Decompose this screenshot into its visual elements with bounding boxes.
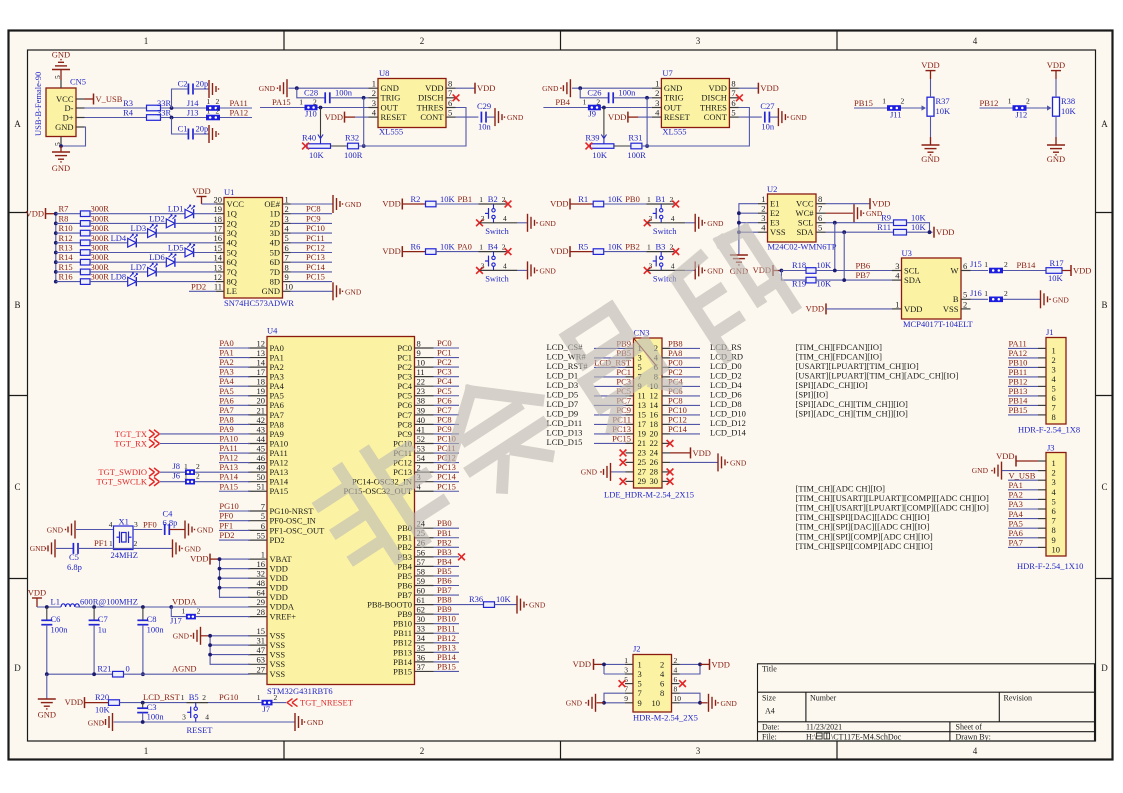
svg-text:5: 5: [1052, 496, 1056, 506]
svg-text:J6: J6: [172, 470, 180, 480]
svg-text:1: 1: [1052, 345, 1056, 355]
junction: [169, 605, 173, 609]
wire cap to TRIG: [330, 97, 369, 99]
wire AGND to VSS27: [124, 673, 251, 675]
svg-text:PC8: PC8: [306, 204, 321, 214]
junction: [698, 701, 702, 705]
svg-text:100n: 100n: [147, 625, 165, 635]
junction: [295, 86, 299, 90]
no connect X pin2: [505, 201, 512, 208]
svg-text:11: 11: [638, 391, 646, 401]
no connect X pin3: [644, 267, 651, 274]
power port VDD right of R17: [1062, 270, 1071, 272]
wire J14 to PA11: [220, 107, 252, 109]
no connect X pin3: [476, 219, 483, 226]
svg-text:2: 2: [196, 471, 200, 480]
svg-text:2: 2: [1026, 97, 1030, 106]
svg-text:3Q: 3Q: [227, 228, 237, 238]
ground GND bottom left: [46, 674, 48, 699]
svg-text:VDD: VDD: [425, 83, 443, 93]
wire LD3 to U1: [156, 232, 216, 234]
svg-text:1: 1: [479, 195, 483, 204]
svg-text:20p: 20p: [196, 79, 209, 89]
svg-text:J7: J7: [263, 704, 271, 714]
svg-text:J10: J10: [305, 109, 317, 119]
svg-text:3: 3: [696, 36, 701, 46]
svg-text:DISCH: DISCH: [701, 93, 727, 103]
svg-text:56: 56: [417, 547, 426, 557]
svg-text:VDD: VDD: [270, 583, 288, 593]
svg-text:2: 2: [596, 98, 600, 107]
svg-text:R2: R2: [411, 194, 421, 204]
svg-text:MCP4017T-104ELT: MCP4017T-104ELT: [903, 319, 974, 329]
svg-text:PB14: PB14: [1017, 260, 1037, 270]
net label PF0: [219, 520, 250, 522]
svg-text:13: 13: [214, 262, 223, 272]
svg-text:SN74HC573ADWR: SN74HC573ADWR: [224, 298, 294, 308]
junction: [737, 221, 741, 225]
svg-text:PA0: PA0: [458, 242, 472, 252]
svg-text:8: 8: [417, 338, 421, 348]
net label PA15: [219, 490, 250, 492]
svg-text:PC2: PC2: [397, 362, 412, 372]
wire R15 to LD7: [90, 271, 148, 273]
net label PB10: [1008, 366, 1038, 368]
svg-text:PF0: PF0: [143, 520, 157, 530]
resistor R32 100R: [331, 145, 348, 147]
svg-text:PA5: PA5: [219, 386, 233, 396]
svg-text:23: 23: [417, 386, 426, 396]
svg-text:PC15: PC15: [437, 481, 456, 491]
svg-text:GND: GND: [307, 718, 324, 727]
ground at switch: [528, 214, 538, 232]
wire bus to pin: [739, 222, 758, 224]
no connect X pin2: [672, 201, 679, 208]
svg-text:24MHZ: 24MHZ: [111, 550, 138, 560]
svg-text:PC1: PC1: [397, 352, 412, 362]
svg-text:[TIM_CH][FDCAN][IO]: [TIM_CH][FDCAN][IO]: [796, 351, 883, 361]
ground pin27: [626, 471, 634, 473]
svg-text:J15: J15: [970, 259, 982, 269]
svg-text:30: 30: [650, 476, 659, 486]
svg-text:SDA: SDA: [796, 227, 814, 237]
svg-text:VDD: VDD: [270, 592, 288, 602]
svg-text:21: 21: [638, 438, 647, 448]
wire R3 to J14: [161, 107, 207, 109]
svg-text:RESET: RESET: [187, 725, 214, 735]
svg-text:PC13: PC13: [437, 462, 456, 472]
junction: [54, 280, 58, 284]
svg-text:51: 51: [257, 482, 266, 492]
wire VDDA rail: [76, 606, 251, 608]
capacitor C27 10n: [739, 116, 762, 118]
svg-text:File:: File:: [762, 732, 777, 741]
net label PC9 pin15: [594, 414, 633, 416]
wire PA15 row: [260, 107, 305, 109]
svg-text:DISCH: DISCH: [418, 93, 444, 103]
svg-text:VDD: VDD: [382, 199, 400, 209]
net label PC10: [291, 232, 333, 234]
svg-text:PC13: PC13: [306, 252, 325, 262]
net label PC13: [291, 261, 333, 263]
net label PF0 and capacitor C4 6.8p: [133, 529, 162, 531]
svg-text:GND: GND: [566, 698, 583, 707]
svg-text:[TIM_CH][SPI][COMP][ADC CH][IO: [TIM_CH][SPI][COMP][ADC CH][IO]: [796, 531, 933, 541]
svg-text:GND: GND: [47, 526, 64, 535]
net label PB12: [434, 642, 460, 644]
svg-text:VDD: VDD: [192, 186, 210, 196]
svg-text:PB0: PB0: [437, 518, 452, 528]
svg-text:2: 2: [669, 243, 673, 252]
net label PC11 pin17: [594, 423, 633, 425]
svg-text:18: 18: [650, 419, 659, 429]
wire PB0 to switch: [604, 203, 647, 205]
svg-text:PC2: PC2: [668, 367, 683, 377]
svg-text:12: 12: [650, 391, 659, 401]
net label PC11: [434, 452, 460, 454]
svg-text:8Q: 8Q: [227, 277, 237, 287]
ground at J2 left: [604, 693, 625, 703]
svg-text:LCD_D9: LCD_D9: [547, 408, 579, 418]
svg-text:4: 4: [503, 214, 507, 223]
svg-text:32: 32: [257, 569, 266, 579]
svg-text:16: 16: [650, 410, 659, 420]
svg-text:A4: A4: [765, 707, 775, 716]
svg-text:Title: Title: [762, 665, 777, 674]
svg-text:TGT_SWCLK: TGT_SWCLK: [96, 477, 147, 487]
svg-text:33: 33: [417, 624, 426, 634]
svg-text:X1: X1: [119, 517, 129, 527]
wire gnd to pin1: [289, 87, 369, 89]
svg-text:24: 24: [650, 448, 659, 458]
svg-text:B: B: [14, 300, 20, 310]
svg-text:E2: E2: [770, 208, 779, 218]
svg-text:300R: 300R: [91, 252, 110, 262]
svg-text:TGT_SWDIO: TGT_SWDIO: [98, 467, 147, 477]
net label PA14: [219, 481, 250, 483]
junction: [59, 144, 63, 148]
svg-text:19: 19: [257, 386, 266, 396]
svg-text:PD2: PD2: [191, 281, 206, 291]
wire J17 to VREF+: [196, 616, 250, 618]
svg-text:1: 1: [109, 539, 113, 548]
svg-text:6: 6: [674, 675, 678, 684]
svg-text:VDD: VDD: [760, 83, 778, 93]
junction: [218, 557, 222, 561]
svg-text:LE: LE: [227, 286, 237, 296]
svg-text:L1: L1: [51, 597, 60, 607]
svg-text:27: 27: [257, 664, 266, 674]
svg-text:J13: J13: [187, 108, 199, 118]
svg-text:PA7: PA7: [219, 405, 233, 415]
svg-text:LCD_D6: LCD_D6: [710, 389, 742, 399]
net label PC5: [434, 395, 460, 397]
svg-text:6D: 6D: [270, 257, 280, 267]
svg-text:62: 62: [417, 605, 426, 615]
wire bus to VSS pin: [210, 654, 250, 656]
svg-text:15: 15: [638, 410, 647, 420]
svg-text:PC15: PC15: [612, 434, 631, 444]
svg-text:1: 1: [299, 98, 303, 107]
svg-text:GND: GND: [38, 710, 56, 720]
wire LD8 to U1: [136, 281, 216, 283]
wire gnd to pin1: [572, 87, 652, 89]
svg-text:25: 25: [638, 457, 647, 467]
svg-text:PA10: PA10: [219, 434, 238, 444]
wire jumper to resistor: [1027, 107, 1050, 109]
power port VDD at J2 right: [680, 663, 701, 665]
svg-text:C27: C27: [760, 101, 774, 111]
svg-text:PA1: PA1: [1009, 480, 1023, 490]
no connect X pin22: [662, 442, 670, 444]
wire D+ net: [85, 117, 147, 119]
junction: [45, 672, 49, 676]
svg-text:PC5: PC5: [397, 391, 412, 401]
svg-text:17: 17: [214, 224, 223, 234]
svg-text:33R: 33R: [157, 98, 172, 108]
svg-text:15: 15: [214, 243, 223, 253]
svg-text:Number: Number: [810, 694, 837, 703]
svg-text:\CT117E-M4.SchDoc: \CT117E-M4.SchDoc: [831, 732, 902, 741]
wire reset ground row: [114, 721, 296, 723]
no connect X pin29: [626, 480, 634, 482]
svg-text:PA7: PA7: [1009, 538, 1023, 548]
svg-text:PC6: PC6: [437, 395, 452, 405]
svg-text:PC0: PC0: [668, 358, 683, 368]
svg-text:PB14: PB14: [437, 652, 457, 662]
net label PA3: [219, 376, 250, 378]
svg-text:2: 2: [1004, 289, 1008, 298]
svg-text:LD3: LD3: [131, 223, 147, 233]
svg-text:1: 1: [647, 195, 651, 204]
svg-text:R1: R1: [578, 194, 588, 204]
wire VDD to RESET: [355, 116, 369, 118]
svg-text:R37: R37: [936, 96, 950, 106]
svg-text:PB1: PB1: [397, 533, 412, 543]
net label PC0: [434, 347, 460, 349]
svg-text:PB9: PB9: [397, 609, 412, 619]
no connect X pin30: [662, 480, 670, 482]
wire CN5 shield to GND: [60, 70, 62, 81]
svg-text:GND: GND: [581, 468, 598, 477]
svg-text:PB7: PB7: [397, 590, 412, 600]
ground at U1 GND pin: [291, 290, 334, 292]
junction: [578, 86, 582, 90]
svg-text:PC1: PC1: [437, 348, 452, 358]
svg-text:1D: 1D: [270, 209, 280, 219]
junction: [92, 672, 96, 676]
svg-text:PB11: PB11: [437, 623, 456, 633]
svg-text:XL555: XL555: [379, 127, 403, 137]
svg-text:VDD: VDD: [693, 448, 711, 458]
capacitor C29 10n: [456, 116, 479, 118]
svg-text:LD5: LD5: [168, 243, 184, 253]
svg-text:19: 19: [214, 204, 223, 214]
svg-text:C: C: [14, 482, 20, 492]
svg-text:PG10-NRST: PG10-NRST: [270, 506, 315, 516]
ground pin26: [662, 461, 670, 463]
svg-text:2: 2: [655, 88, 659, 98]
svg-text:[TIM_CH][ADC CH][IO]: [TIM_CH][ADC CH][IO]: [796, 483, 886, 493]
svg-text:1: 1: [984, 289, 988, 298]
svg-text:2: 2: [901, 97, 905, 106]
svg-text:LCD_D1: LCD_D1: [547, 370, 579, 380]
svg-text:GND: GND: [790, 113, 807, 122]
wire J7 to port: [273, 702, 287, 704]
svg-text:PB15: PB15: [437, 661, 456, 671]
svg-text:4: 4: [671, 261, 675, 270]
svg-text:VSS: VSS: [270, 659, 286, 669]
net label PB11: [434, 632, 460, 634]
svg-text:2: 2: [420, 746, 425, 756]
net label PC9: [434, 433, 460, 435]
svg-text:THRES: THRES: [700, 102, 727, 112]
svg-text:6: 6: [1052, 393, 1056, 403]
svg-text:R8: R8: [59, 213, 69, 223]
net label PC15: [434, 490, 460, 492]
svg-text:VSS: VSS: [943, 304, 959, 314]
ground GND left of U8: [278, 79, 288, 97]
svg-text:PA12: PA12: [230, 108, 249, 118]
svg-text:5: 5: [1052, 383, 1056, 393]
svg-text:PA2: PA2: [270, 362, 284, 372]
svg-text:2: 2: [761, 204, 765, 214]
net label PD2: [219, 539, 250, 541]
wire LD4 to U1: [136, 242, 216, 244]
net label PG10: [219, 510, 250, 512]
svg-text:PA13: PA13: [219, 462, 238, 472]
svg-text:R31: R31: [628, 133, 642, 143]
svg-text:PC0: PC0: [437, 338, 452, 348]
ground at C29: [486, 116, 495, 118]
capacitor C6 100n: [46, 607, 48, 620]
no connect X at PB3: [458, 553, 465, 560]
svg-text:2: 2: [274, 693, 278, 702]
svg-text:R11: R11: [877, 222, 891, 232]
svg-text:2Q: 2Q: [227, 218, 237, 228]
wire LD5 to U1: [194, 252, 216, 254]
svg-text:10K: 10K: [496, 594, 512, 604]
wire R to THRES: [359, 108, 467, 147]
svg-text:28: 28: [650, 467, 659, 477]
wire R16 to LD8: [90, 281, 128, 283]
ground at C27: [769, 116, 778, 118]
svg-text:1: 1: [647, 243, 651, 252]
svg-text:R21: R21: [97, 664, 111, 674]
net label PA12: [219, 462, 250, 464]
svg-text:3: 3: [761, 213, 765, 223]
svg-text:R40: R40: [302, 133, 316, 143]
connector CN5 USB-B-Female-90: [46, 88, 76, 137]
wire R to THRES: [642, 108, 750, 147]
svg-text:5: 5: [261, 511, 265, 521]
svg-text:5D: 5D: [270, 247, 280, 257]
svg-text:PB2: PB2: [437, 537, 452, 547]
svg-text:VDD: VDD: [608, 112, 626, 122]
svg-text:VDD: VDD: [382, 246, 400, 256]
svg-text:LCD_D10: LCD_D10: [710, 408, 746, 418]
net label PC8: [434, 423, 460, 425]
svg-text:Switch: Switch: [653, 226, 677, 236]
net label PA12: [1008, 357, 1038, 359]
svg-text:GND: GND: [185, 544, 202, 553]
svg-text:J9: J9: [588, 109, 596, 119]
capacitor C7 1u: [93, 607, 95, 620]
svg-text:7D: 7D: [270, 267, 280, 277]
junction: [319, 106, 323, 110]
junction: [141, 672, 145, 676]
svg-text:14: 14: [257, 358, 266, 368]
svg-text:3: 3: [648, 261, 652, 270]
ground at C4: [169, 529, 185, 531]
svg-text:PA4: PA4: [219, 376, 234, 386]
svg-text:VDD: VDD: [806, 304, 824, 314]
svg-text:23: 23: [638, 448, 647, 458]
wire CN5 GND loop: [61, 127, 86, 146]
svg-text:1: 1: [761, 194, 765, 204]
svg-text:5: 5: [638, 362, 642, 372]
svg-text:PA7: PA7: [270, 410, 284, 420]
junction: [833, 269, 837, 273]
wire R20 to switch: [120, 702, 187, 704]
svg-text:3: 3: [372, 98, 376, 108]
svg-text:300R: 300R: [91, 262, 110, 272]
capacitor C2 20p: [172, 89, 189, 108]
svg-text:1: 1: [624, 656, 628, 665]
svg-text:GND: GND: [345, 287, 362, 296]
net label PC13 pin19: [594, 433, 633, 435]
net label PC10: [434, 443, 460, 445]
net label PC8 pin14: [662, 404, 700, 406]
svg-text:1: 1: [1052, 458, 1056, 468]
power port VDD at VCC: [826, 203, 871, 205]
net label PB8 pin2: [662, 347, 700, 349]
net label PB14: [434, 661, 460, 663]
svg-text:4Q: 4Q: [227, 238, 237, 248]
svg-text:OUT: OUT: [381, 102, 399, 112]
svg-text:100n: 100n: [335, 87, 353, 97]
net label PA7: [219, 414, 250, 416]
net label PA9: [219, 433, 250, 435]
junction: [45, 605, 49, 609]
svg-text:52: 52: [417, 434, 426, 444]
svg-text:6: 6: [1052, 506, 1056, 516]
svg-text:PC9: PC9: [437, 424, 452, 434]
svg-text:PA14: PA14: [270, 477, 289, 487]
svg-text:R13: R13: [59, 243, 73, 253]
svg-text:1: 1: [984, 260, 988, 269]
svg-text:CONT: CONT: [420, 112, 444, 122]
svg-text:GND: GND: [921, 154, 939, 164]
junction: [645, 144, 649, 148]
svg-text:1: 1: [479, 243, 483, 252]
svg-text:PA9: PA9: [270, 429, 284, 439]
svg-text:VCC: VCC: [227, 199, 245, 209]
svg-text:2: 2: [216, 107, 220, 116]
title block: [758, 664, 1095, 741]
net label PA11: [219, 452, 250, 454]
no connect X pin2: [505, 248, 512, 255]
svg-text:PA12: PA12: [1009, 348, 1028, 358]
net label PB12: [1008, 385, 1038, 387]
wire R8 to LD2: [90, 222, 166, 224]
svg-text:PA12: PA12: [219, 453, 238, 463]
svg-text:6: 6: [261, 521, 265, 531]
svg-text:TRIG: TRIG: [664, 93, 684, 103]
power port VDD at pin8: [456, 87, 476, 89]
svg-text:GND: GND: [972, 466, 989, 475]
svg-text:PC14: PC14: [668, 424, 688, 434]
